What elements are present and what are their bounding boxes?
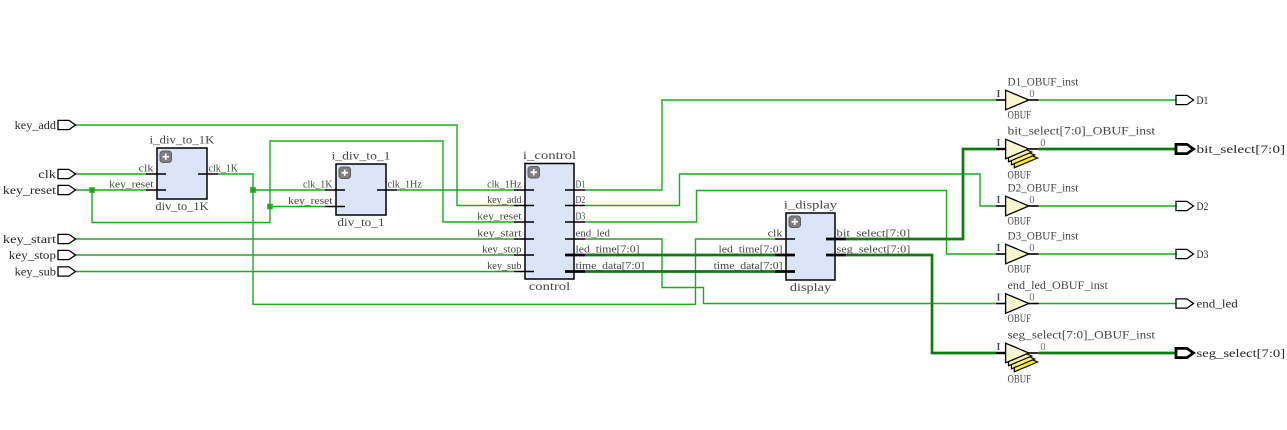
- wire net D2 output: OBUF to port D2: [1039, 205, 1176, 207]
- svg-text:key_start: key_start: [477, 229, 522, 240]
- svg-text:D1: D1: [1197, 93, 1209, 107]
- svg-text:I: I: [996, 195, 1001, 206]
- svg-text:O: O: [1041, 138, 1046, 149]
- wire net clk_1K: J1 to div_to_1.clk_1K: [253, 189, 325, 191]
- svg-text:OBUF: OBUF: [1008, 262, 1032, 276]
- svg-text:OBUF: OBUF: [1008, 108, 1032, 122]
- svg-text:bit_select[7:0]: bit_select[7:0]: [837, 229, 911, 240]
- wire net key_reset: port through J0 to div_to_1K.key_reset: [76, 189, 147, 191]
- svg-text:end_led: end_led: [1197, 297, 1238, 311]
- svg-text:time_data[7:0]: time_data[7:0]: [576, 261, 645, 272]
- input port key_start: [3, 232, 76, 246]
- svg-text:OBUF: OBUF: [1008, 214, 1032, 228]
- svg-text:clk_1Hz: clk_1Hz: [388, 180, 423, 191]
- wire bus bit_select[7:0] output: OBUF to port: [1039, 148, 1176, 151]
- wire net end_led output: OBUF to port end_led: [1039, 303, 1176, 305]
- svg-text:I: I: [996, 293, 1001, 304]
- wire net clk: port to div_to_1K.clk: [76, 173, 147, 175]
- svg-text:D1: D1: [576, 180, 586, 191]
- svg-text:D3: D3: [1197, 247, 1209, 261]
- buffer end_led_OBUF_inst: [996, 278, 1109, 325]
- svg-text:key_sub: key_sub: [487, 261, 521, 272]
- svg-text:O: O: [1030, 195, 1035, 206]
- wire bus led_time[7:0]: control to i_display: [585, 254, 775, 257]
- svg-text:key_add: key_add: [487, 195, 521, 206]
- wire net end_led: control.end_led to end_led_OBUF input: [585, 239, 996, 304]
- svg-text:time_data[7:0]: time_data[7:0]: [714, 261, 783, 272]
- svg-text:key_add: key_add: [15, 118, 56, 132]
- junction J2 on key_reset net: [267, 204, 273, 210]
- svg-text:clk_1Hz: clk_1Hz: [487, 180, 522, 191]
- input port key_sub: [15, 265, 76, 279]
- svg-text:i_div_to_1K: i_div_to_1K: [150, 132, 215, 146]
- wire net key_add: port to control.key_add: [76, 125, 515, 206]
- svg-text:clk_1K: clk_1K: [209, 164, 239, 175]
- svg-text:OBUF: OBUF: [1008, 372, 1032, 386]
- svg-text:OBUF: OBUF: [1008, 311, 1032, 325]
- wire net key_reset: J2 up over to control.key_reset: [270, 141, 514, 222]
- svg-text:D2: D2: [576, 195, 586, 206]
- svg-text:I: I: [996, 342, 1001, 353]
- output port D1: [1176, 93, 1208, 107]
- wire net clk_1K: div_to_1K.clk_1K to J1: [218, 174, 253, 190]
- svg-text:div_to_1K: div_to_1K: [155, 199, 208, 213]
- svg-text:key_reset: key_reset: [3, 183, 57, 197]
- wire net D3 output: OBUF to port D3: [1039, 253, 1176, 255]
- svg-text:D3_OBUF_inst: D3_OBUF_inst: [1008, 229, 1079, 243]
- wire net key_stop: port to control.key_stop: [76, 254, 515, 256]
- svg-text:clk: clk: [139, 164, 154, 175]
- svg-text:bit_select[7:0]: bit_select[7:0]: [1197, 142, 1286, 156]
- svg-text:end_led_OBUF_inst: end_led_OBUF_inst: [1008, 278, 1109, 292]
- svg-text:i_display: i_display: [784, 197, 837, 211]
- wire bus bit_select[7:0]: i_display to OBUF input: [846, 149, 996, 239]
- output port D3: [1176, 247, 1208, 261]
- junction J1 on clk_1K net: [250, 187, 256, 193]
- svg-text:seg_select[7:0]_OBUF_inst: seg_select[7:0]_OBUF_inst: [1008, 328, 1156, 342]
- svg-text:display: display: [790, 280, 831, 294]
- module block i_display: [714, 197, 911, 294]
- input port key_reset: [3, 183, 76, 197]
- output port bit_select[7:0]: [1176, 142, 1285, 156]
- buffer D1_OBUF_inst: [996, 75, 1079, 122]
- svg-text:key_stop: key_stop: [9, 248, 56, 262]
- svg-text:key_sub: key_sub: [15, 265, 56, 279]
- svg-text:O: O: [1041, 342, 1046, 353]
- svg-text:O: O: [1030, 89, 1035, 100]
- module block i_div_to_1: [288, 148, 422, 229]
- svg-text:control: control: [529, 279, 571, 293]
- wire net clk_1K: J1 down and across to i_display.clk: [253, 190, 775, 304]
- svg-text:I: I: [996, 89, 1001, 100]
- svg-text:D2_OBUF_inst: D2_OBUF_inst: [1008, 181, 1079, 195]
- svg-text:key_reset: key_reset: [288, 196, 333, 207]
- wire net clk_1Hz: div_to_1.clk_1Hz to control.clk_1Hz: [397, 189, 514, 191]
- svg-text:i_control: i_control: [523, 148, 577, 162]
- wire net D2: control.D2 to D2_OBUF input: [585, 174, 996, 206]
- svg-text:seg_select[7:0]: seg_select[7:0]: [1197, 346, 1286, 360]
- wire net D3: control.D3 to D3_OBUF input: [585, 191, 996, 255]
- svg-text:led_time[7:0]: led_time[7:0]: [719, 245, 783, 256]
- buffer seg_select[7:0]_OBUF_inst: [996, 328, 1156, 386]
- svg-text:I: I: [996, 138, 1001, 149]
- wire net key_start: port to control.key_start: [76, 238, 515, 240]
- svg-text:clk_1K: clk_1K: [303, 180, 333, 191]
- svg-text:i_div_to_1: i_div_to_1: [332, 148, 391, 162]
- svg-text:O: O: [1030, 243, 1035, 254]
- wire net key_reset: J2 to div_to_1.key_reset: [270, 206, 325, 208]
- buffer D3_OBUF_inst: [996, 229, 1079, 276]
- input port key_stop: [9, 248, 76, 262]
- module block i_div_to_1K: [109, 132, 239, 213]
- svg-text:key_stop: key_stop: [482, 245, 521, 256]
- buffer bit_select[7:0]_OBUF_inst: [996, 124, 1156, 182]
- svg-text:key_reset: key_reset: [109, 180, 154, 191]
- wire net D1: control.D1 to D1_OBUF input: [585, 100, 996, 190]
- wire net key_reset: J0 down-right to J2: [92, 190, 270, 223]
- input port clk: [38, 167, 75, 181]
- output port seg_select[7:0]: [1176, 346, 1285, 360]
- wire net key_sub: port to control.key_sub: [76, 271, 515, 273]
- output port D2: [1176, 199, 1208, 213]
- svg-text:key_start: key_start: [3, 232, 57, 246]
- svg-text:led_time[7:0]: led_time[7:0]: [576, 245, 640, 256]
- junction J0 on key_reset net: [89, 187, 95, 193]
- input port key_add: [15, 118, 76, 132]
- wire bus seg_select[7:0]: i_display to OBUF input: [846, 255, 996, 353]
- output port end_led: [1176, 297, 1238, 311]
- svg-text:D2: D2: [1197, 199, 1209, 213]
- svg-text:div_to_1: div_to_1: [337, 215, 384, 229]
- buffer D2_OBUF_inst: [996, 181, 1079, 228]
- svg-text:O: O: [1030, 293, 1035, 304]
- svg-text:bit_select[7:0]_OBUF_inst: bit_select[7:0]_OBUF_inst: [1008, 124, 1156, 138]
- svg-text:key_reset: key_reset: [477, 212, 522, 223]
- svg-text:I: I: [996, 243, 1001, 254]
- svg-text:clk: clk: [38, 167, 56, 181]
- svg-text:D3: D3: [576, 212, 586, 223]
- svg-text:seg_select[7:0]: seg_select[7:0]: [837, 245, 911, 256]
- svg-text:OBUF: OBUF: [1008, 168, 1032, 182]
- svg-text:D1_OBUF_inst: D1_OBUF_inst: [1008, 75, 1079, 89]
- module block i_control: [477, 148, 644, 293]
- wire bus seg_select[7:0] output: OBUF to port: [1039, 352, 1176, 355]
- svg-text:end_led: end_led: [576, 229, 610, 240]
- wire net D1 output: OBUF to port D1: [1039, 99, 1176, 101]
- wire bus time_data[7:0]: control to i_display: [585, 270, 775, 273]
- svg-text:clk: clk: [768, 229, 783, 240]
